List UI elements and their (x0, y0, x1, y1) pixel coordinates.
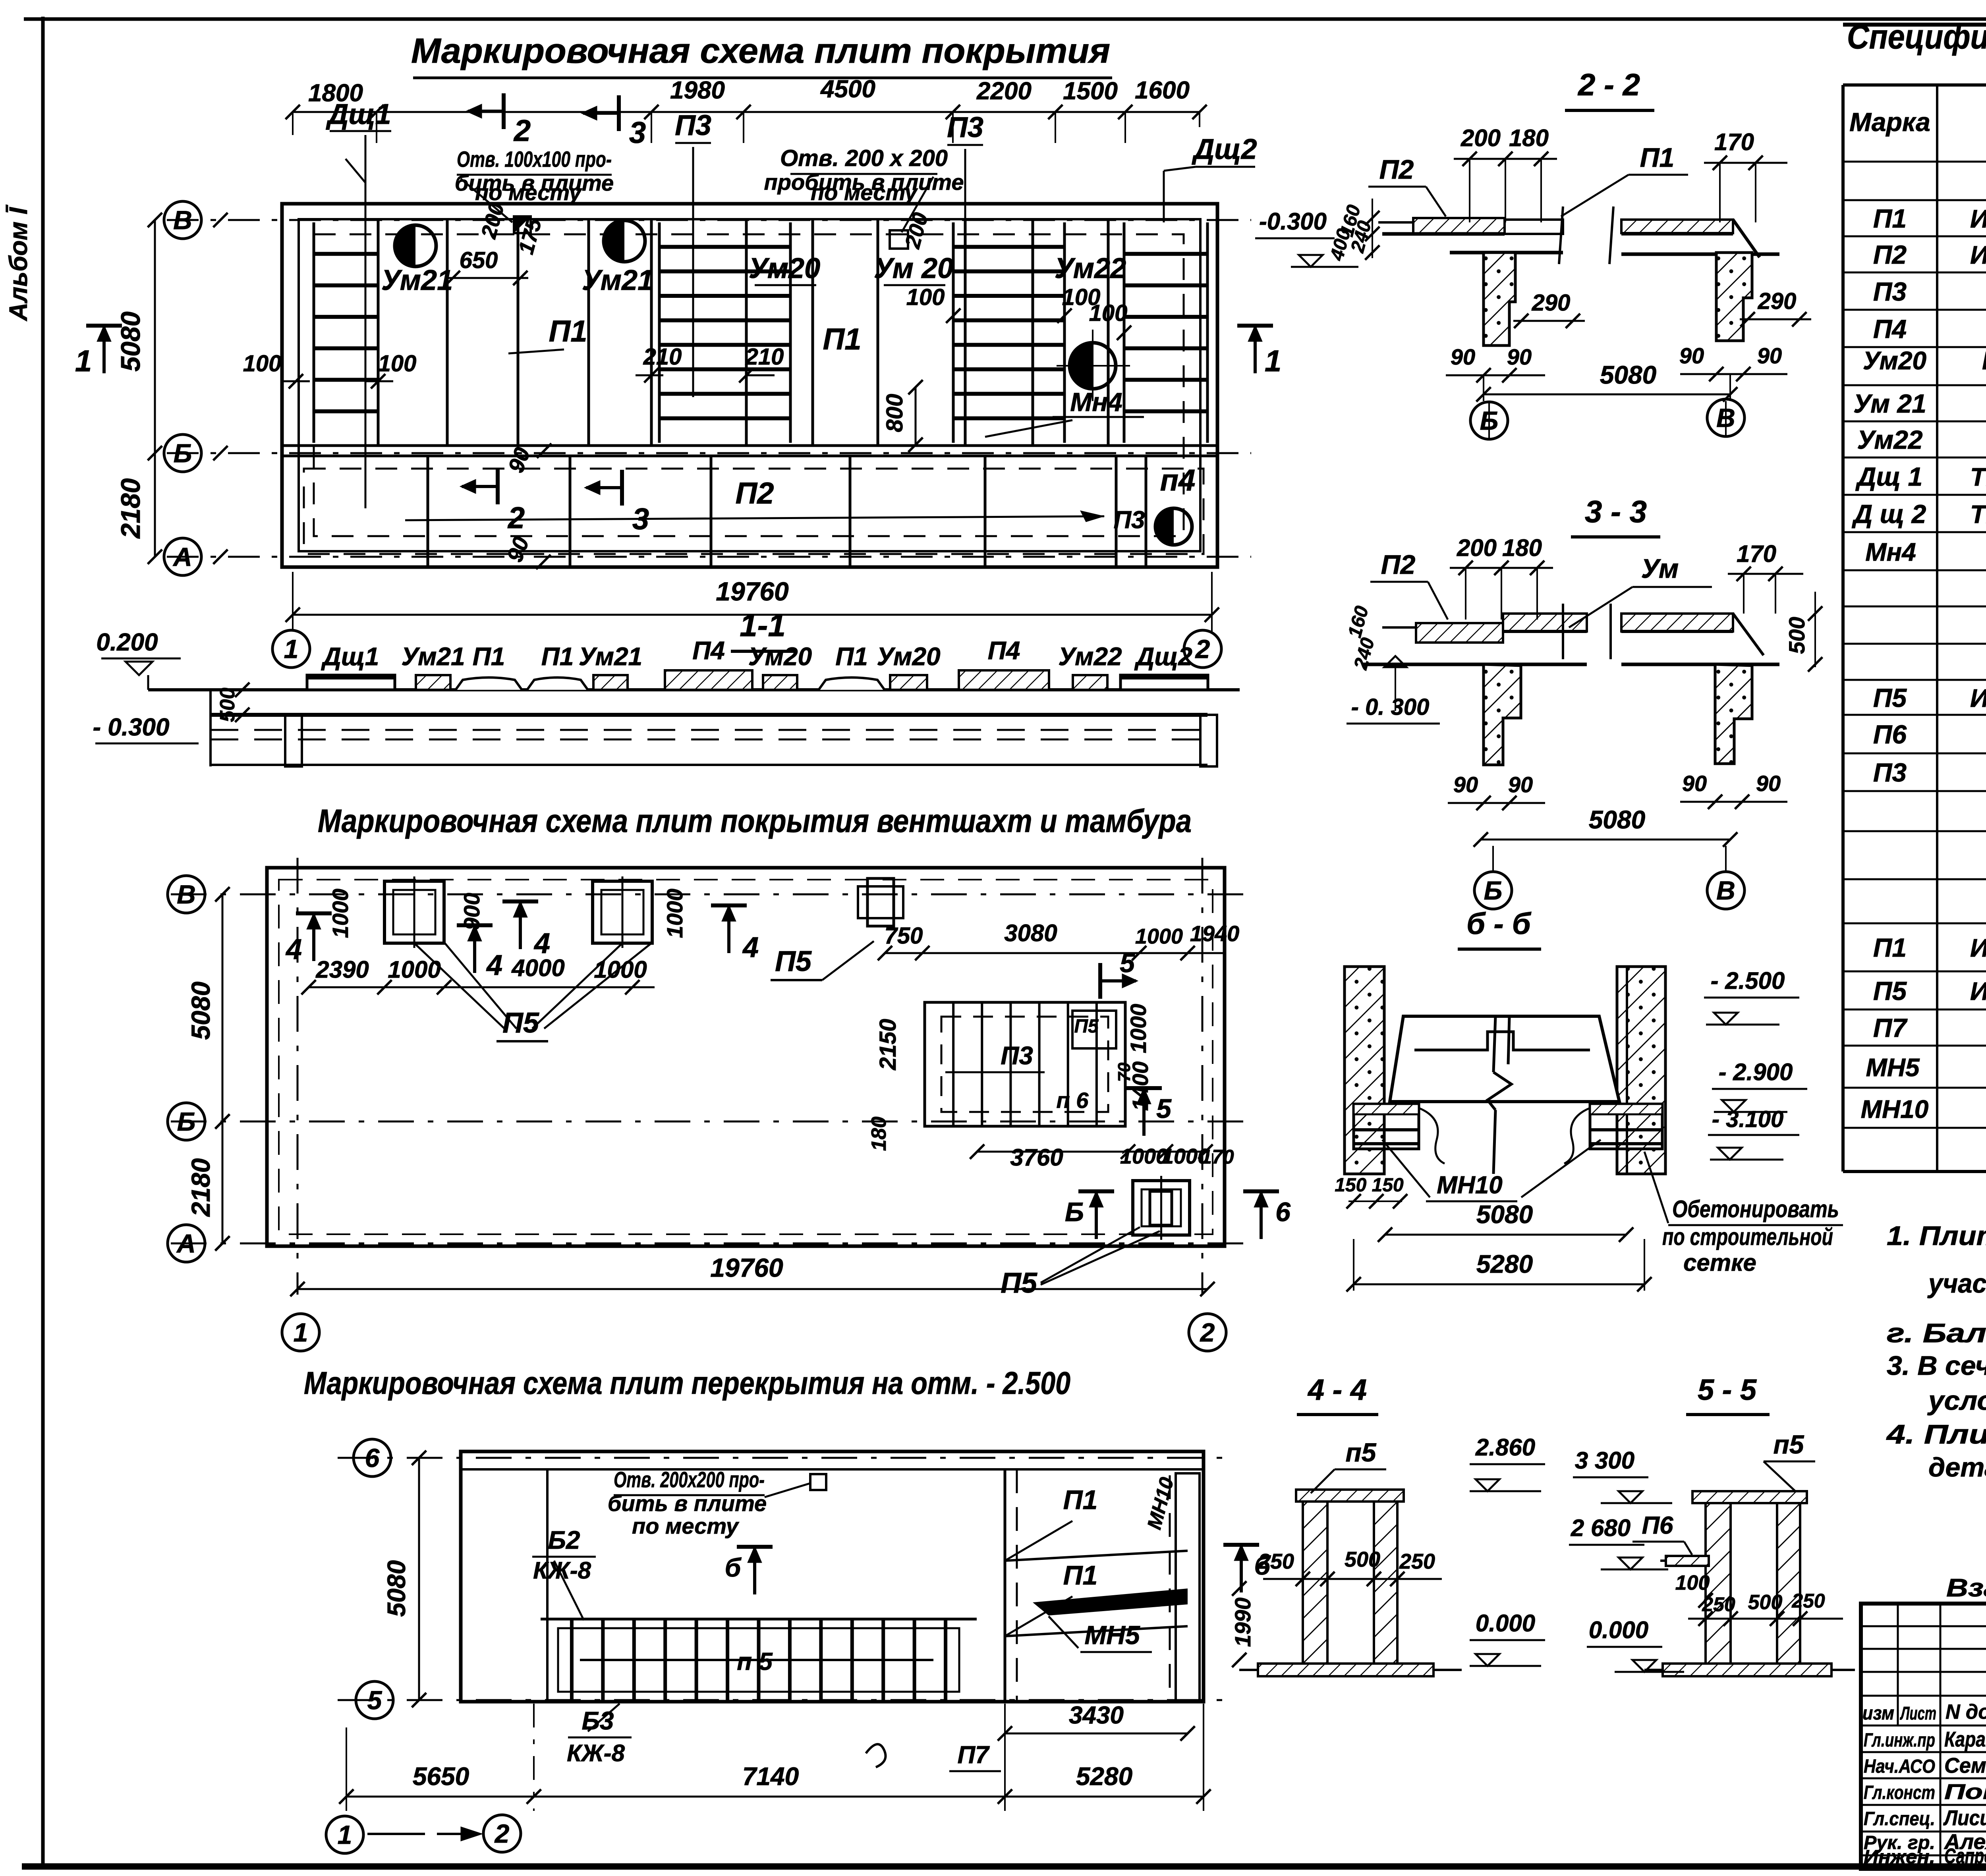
svg-text:ИС - 01- 04 Вып2: ИС - 01- 04 Вып2 (1970, 977, 1986, 1006)
section 4-4 body (1239, 1490, 1462, 1676)
slab П4 in section 1-1 (665, 636, 752, 690)
svg-text:Спецификация элементов к ма: Спецификация элементов к маркировочным с… (1847, 18, 1986, 56)
arrow between circles (367, 1827, 483, 1841)
vent plan axis B (171, 1121, 1247, 1123)
svg-text:1000: 1000 (388, 956, 440, 983)
vent plan outer wall (267, 868, 1225, 1246)
svg-text:Отв. 200х200 про-: Отв. 200х200 про- (614, 1467, 765, 1492)
section 2-2 top dims (1454, 125, 1787, 222)
title block outer (1861, 1604, 1986, 1869)
section 2-2 title (1565, 67, 1654, 110)
section 6-6 dim 5080 (1378, 1200, 1633, 1242)
elevation 0.200 (96, 629, 181, 675)
svg-text:800: 800 (882, 394, 908, 432)
svg-text:П5: П5 (1001, 1267, 1037, 1299)
svg-text:Отв. 100х100 про-: Отв. 100х100 про- (457, 147, 612, 172)
slab Ум21 in section 1-1 (579, 642, 642, 690)
svg-text:п 5: п 5 (737, 1648, 773, 1675)
svg-text:Взамен листа КЖ7 21.09.62. И: Взамен листа КЖ7 21.09.62. Инш. (1946, 1573, 1986, 1602)
svg-text:2.860: 2.860 (1475, 1434, 1535, 1461)
section 2-2 dim 5080 (1476, 361, 1737, 401)
section 2-2 right wall (1716, 253, 1752, 341)
svg-text:170: 170 (1737, 540, 1776, 567)
svg-text:5: 5 (1120, 948, 1135, 978)
svg-text:70: 70 (1115, 1062, 1134, 1082)
axis circle 2 bottom (483, 1815, 521, 1852)
section 6-6 right wall (1617, 967, 1665, 1174)
svg-text:2: 2 (1200, 1318, 1215, 1347)
svg-text:А: А (172, 542, 192, 571)
svg-text:П3: П3 (1873, 277, 1907, 306)
svg-text:2: 2 (1195, 634, 1210, 664)
svg-text:Ум 21: Ум 21 (1853, 389, 1926, 418)
svg-text:1: 1 (284, 634, 299, 664)
svg-text:П3: П3 (1001, 1041, 1033, 1070)
svg-text:-0.300: -0.300 (1259, 208, 1327, 235)
section 6-6 slab trapezoid (1390, 1016, 1619, 1174)
svg-text:4 - 4: 4 - 4 (1307, 1373, 1367, 1406)
slab П1 in section 1-1 (456, 642, 522, 690)
dim 100 right (1089, 300, 1132, 340)
elevation 0.000 sec4-4 (1470, 1610, 1545, 1666)
section flags 5 (1100, 948, 1172, 1136)
svg-text:500: 500 (1345, 1548, 1380, 1571)
svg-text:5080: 5080 (1476, 1200, 1533, 1229)
svg-text:г. Балки Б2 и БЗ см.: г. Балки Б2 и БЗ см. КЖ8 . (1887, 1318, 1986, 1348)
svg-text:3. В сеч. 4-4 и 5 - 5 жал: 3. В сеч. 4-4 и 5 - 5 жалюзийные решетки (1887, 1351, 1986, 1381)
svg-text:П2: П2 (1873, 240, 1907, 269)
dim 3430 (998, 1702, 1195, 1741)
slab Ум21 in section 1-1 (401, 642, 465, 690)
svg-text:Обетонировать: Обетонировать (1672, 1196, 1839, 1222)
svg-text:500: 500 (1748, 1591, 1783, 1614)
svg-text:Мн4: Мн4 (1865, 538, 1916, 566)
svg-text:250: 250 (1258, 1550, 1294, 1573)
svg-text:90: 90 (1508, 772, 1533, 797)
svg-text:2150: 2150 (875, 1019, 901, 1070)
vent shaft opening 3 small (858, 878, 903, 926)
svg-text:1600: 1600 (1135, 77, 1190, 104)
svg-text:Нач.АСО: Нач.АСО (1864, 1756, 1935, 1777)
dim 1990 rotated (1230, 1581, 1255, 1667)
replacement note (1946, 1573, 1986, 1604)
svg-text:200: 200 (1457, 535, 1497, 561)
svg-text:П1: П1 (835, 642, 868, 671)
label B2 KЖ-8 (532, 1526, 596, 1620)
svg-text:750: 750 (885, 923, 923, 949)
section 3-3 left small dims (1344, 604, 1379, 672)
svg-text:90: 90 (1756, 771, 1781, 796)
section 3-3 dims 90 90 (1448, 771, 1787, 810)
section 4-4 labels dims (1258, 1438, 1442, 1586)
svg-text:- 2.900: - 2.900 (1719, 1059, 1793, 1085)
svg-text:П3: П3 (1113, 506, 1145, 534)
svg-text:180: 180 (867, 1117, 891, 1151)
svg-text:Марка: Марка (1849, 107, 1930, 137)
svg-text:Отв. 200 х 200: Отв. 200 х 200 (780, 145, 948, 171)
svg-text:2180: 2180 (116, 478, 146, 539)
svg-text:Б: Б (1065, 1197, 1084, 1227)
svg-text:В: В (173, 205, 192, 235)
section 3-3 right wall (1715, 664, 1752, 764)
section mark 2 top (466, 93, 531, 148)
section 3-3 title (1571, 494, 1660, 537)
slab joints lower band (428, 456, 1146, 567)
section mark 3 top (581, 95, 646, 150)
svg-text:сетке: сетке (1683, 1249, 1756, 1276)
weld plate MN5 black wedge (1033, 1588, 1188, 1615)
svg-text:90: 90 (1679, 343, 1704, 368)
vent plan bottom dims (970, 1144, 1234, 1171)
svg-text:1: 1 (1265, 344, 1281, 378)
beam B2 B3 ribbed area (541, 1619, 977, 1702)
notes (1886, 1221, 1986, 1482)
svg-text:МН10: МН10 (1861, 1095, 1929, 1123)
svg-text:5280: 5280 (1476, 1250, 1533, 1278)
svg-text:100: 100 (1675, 1571, 1710, 1594)
label Um22 (1055, 253, 1126, 284)
svg-text:1000: 1000 (1126, 1004, 1151, 1054)
spec row P3b (1873, 758, 1986, 787)
svg-text:2 - 2: 2 - 2 (1577, 67, 1640, 102)
dim 90 upper (503, 444, 551, 476)
svg-text:Б: Б (1480, 406, 1499, 435)
label Mn4 (985, 387, 1144, 437)
axis circle V (164, 201, 228, 239)
section 6-6 dim 150 150 (1335, 1175, 1407, 1208)
section 3-3 axis circle B (1474, 846, 1512, 909)
svg-text:5: 5 (367, 1685, 383, 1715)
svg-text:250: 250 (1399, 1550, 1435, 1573)
axis circle A (164, 538, 228, 575)
section flags 6 bottom (1065, 1191, 1291, 1239)
svg-text:1940: 1940 (1190, 921, 1240, 946)
svg-text:П1: П1 (1640, 143, 1675, 173)
svg-text:1500: 1500 (1063, 77, 1118, 105)
floor plan axis 6 (338, 1439, 1231, 1476)
hole 200x200 (890, 230, 908, 249)
svg-text:П5: П5 (1873, 976, 1907, 1006)
svg-text:90: 90 (1757, 343, 1782, 368)
spec table grid (1843, 85, 1986, 1172)
vent shaft opening bottom right (1133, 1176, 1190, 1240)
svg-text:П7: П7 (957, 1741, 990, 1769)
section 4-4 title (1297, 1373, 1378, 1415)
svg-text:90: 90 (1451, 344, 1475, 369)
svg-text:100: 100 (1089, 300, 1128, 326)
svg-text:4500: 4500 (820, 75, 875, 103)
svg-text:б: б (725, 1553, 742, 1582)
svg-text:бить в плите: бить в плите (608, 1491, 767, 1516)
svg-text:П2: П2 (1379, 154, 1414, 185)
svg-text:500: 500 (1784, 617, 1809, 654)
spec row P2 (1873, 240, 1986, 269)
svg-text:1000: 1000 (662, 889, 687, 938)
svg-text:Гл.инж.пр: Гл.инж.пр (1864, 1730, 1935, 1751)
svg-text:по месту: по месту (475, 180, 583, 205)
svg-text:Д щ 2: Д щ 2 (1852, 499, 1926, 529)
section 6-6 dim 5280 (1347, 1239, 1652, 1291)
elevation -0.300 section 1-1 (93, 714, 199, 743)
svg-text:1: 1 (294, 1318, 308, 1347)
label Um20b (874, 253, 953, 285)
spec row P6 (1873, 720, 1986, 749)
svg-text:2180: 2180 (186, 1158, 215, 1217)
svg-text:участки покрытия без рас: участки покрытия без раствора (1927, 1268, 1986, 1299)
svg-text:В: В (1716, 876, 1735, 905)
svg-text:п5: п5 (1773, 1430, 1804, 1459)
axis circle 2 mid (1189, 1314, 1226, 1351)
svg-text:Мн4: Мн4 (1070, 387, 1122, 417)
svg-text:170: 170 (1201, 1146, 1234, 1168)
svg-text:б - б: б - б (1466, 907, 1532, 941)
label Um21 (381, 264, 453, 296)
section 6-6 support pads (1354, 1104, 1662, 1164)
svg-text:Ум21: Ум21 (579, 642, 642, 671)
vent axis circle A (168, 1225, 230, 1262)
svg-text:П1: П1 (1873, 933, 1907, 962)
svg-text:19760: 19760 (716, 577, 789, 606)
svg-text:2390: 2390 (315, 956, 369, 983)
svg-text:1000: 1000 (1135, 924, 1183, 948)
axis line V (167, 219, 1251, 221)
note hole 100x100 (455, 147, 614, 222)
floor plan P1 slabs (1005, 1469, 1200, 1702)
svg-text:3 - 3: 3 - 3 (1585, 494, 1647, 529)
vent shaft opening 1 (384, 876, 444, 948)
spec row Mn4 (1865, 532, 1986, 572)
section mark 1 left (75, 325, 122, 378)
svg-text:1-1: 1-1 (740, 608, 786, 643)
svg-text:П1: П1 (823, 322, 862, 356)
label P4 lower right (1160, 463, 1196, 497)
svg-text:П6: П6 (1873, 720, 1907, 749)
svg-text:Маркировочная схема плит п: Маркировочная схема плит перекрытия на о… (304, 1365, 1070, 1401)
slab Ум20 in section 1-1 (748, 642, 812, 690)
title block left grid (1861, 1604, 1986, 1869)
svg-text:Ум20: Ум20 (1863, 346, 1926, 375)
svg-text:Дщ2: Дщ2 (1191, 133, 1257, 165)
section flags 4 (285, 901, 759, 981)
svg-text:ТП: ТП (1970, 463, 1986, 491)
svg-text:250: 250 (1702, 1593, 1735, 1615)
svg-text:Ум20: Ум20 (748, 642, 812, 671)
svg-text:170: 170 (1714, 129, 1754, 155)
section 2-2 axis circle V (1707, 399, 1745, 437)
vent plan rotated dims (328, 889, 1153, 1151)
svg-text:19760: 19760 (710, 1253, 783, 1282)
svg-text:Каракозов: Каракозов (1944, 1727, 1986, 1751)
vent axis 1 line (297, 858, 299, 1295)
svg-text:5080: 5080 (1600, 361, 1656, 389)
svg-text:КЖ: КЖ (1982, 346, 1986, 375)
label P3 lower right (1113, 506, 1145, 534)
svg-text:Маркировочная схема плит: Маркировочная схема плит покрытия (411, 31, 1110, 70)
svg-text:П1: П1 (1063, 1560, 1098, 1590)
roof slab plan: outer walls (282, 204, 1217, 567)
formwork dashed outline upper (314, 234, 1184, 536)
svg-text:3760: 3760 (1010, 1144, 1063, 1171)
svg-text:П6: П6 (1642, 1512, 1673, 1539)
section 3-3 left wall (1484, 664, 1521, 765)
svg-text:3430: 3430 (1069, 1702, 1124, 1729)
svg-text:Семенов: Семенов (1944, 1754, 1986, 1778)
section 3-3 dim 500 (1784, 592, 1822, 672)
note hole 200x200 (764, 145, 964, 232)
svg-text:2200: 2200 (976, 77, 1032, 105)
svg-text:Гл.спец.: Гл.спец. (1864, 1808, 1935, 1830)
svg-text:2 680: 2 680 (1571, 1515, 1631, 1541)
svg-text:5: 5 (1156, 1094, 1172, 1124)
label Dsh1 with leader (325, 98, 391, 508)
svg-text:0.000: 0.000 (1476, 1610, 1535, 1637)
slab Дщ2 in section 1-1 (1121, 642, 1208, 690)
spec table headers (1849, 98, 1986, 150)
svg-text:Б: Б (174, 438, 192, 468)
svg-text:Дщ 1: Дщ 1 (1855, 462, 1922, 491)
vent axis circle B (168, 1103, 230, 1140)
hole Um22 (1057, 330, 1130, 401)
svg-text:П3: П3 (675, 110, 711, 141)
section 2-2 labels (1368, 143, 1688, 216)
svg-text:условно не показаны: условно не показаны (1927, 1386, 1986, 1416)
dim 200b (900, 210, 933, 251)
elevation -0.300 sec2-2 (0, 0, 0, 0)
spec row P4 (1873, 314, 1986, 344)
svg-text:5280: 5280 (1076, 1762, 1132, 1791)
band separator line (282, 446, 1217, 456)
section 2-2 left small dims (1326, 199, 1379, 263)
svg-text:П4: П4 (988, 636, 1020, 665)
slab П1 in section 1-1 (819, 642, 885, 690)
svg-text:ИИ 24-9: ИИ 24-9 (1970, 205, 1986, 233)
axis circle 1 bottom (326, 1816, 363, 1853)
slab Дщ1 in section 1-1 (307, 642, 395, 690)
section 5-5 labels dims (1632, 1430, 1843, 1626)
svg-text:П5: П5 (502, 1007, 539, 1039)
formwork dashed outline lower (304, 469, 1204, 554)
axis circle 1 mid (282, 1314, 319, 1351)
hole Um21 left (395, 225, 436, 266)
squiggle mark on dim (866, 1744, 886, 1767)
ribbed slabs P3 mid (659, 222, 790, 443)
svg-text:Ум21: Ум21 (401, 642, 465, 671)
svg-text:П7: П7 (1873, 1013, 1908, 1042)
svg-text:5080: 5080 (186, 981, 215, 1040)
svg-text:0.200: 0.200 (96, 629, 158, 656)
svg-text:Ис - 01 - 04 Вып 2.: Ис - 01 - 04 Вып 2. (1970, 241, 1986, 269)
dim 100 mid pair (906, 284, 1101, 323)
svg-text:Ум 20: Ум 20 (874, 253, 953, 284)
svg-text:Ум20: Ум20 (877, 642, 940, 671)
spec row P3 (1873, 277, 1986, 306)
svg-text:1: 1 (338, 1820, 352, 1849)
svg-text:П5: П5 (1074, 1016, 1099, 1037)
svg-text:П1: П1 (1873, 204, 1907, 233)
svg-text:Лисичкин: Лисичкин (1943, 1806, 1986, 1830)
spec row P5 floor (1873, 976, 1986, 1006)
svg-text:Ум20: Ум20 (749, 253, 820, 284)
elevation 3 300 (1573, 1447, 1672, 1503)
svg-text:200: 200 (1461, 125, 1501, 151)
title block left texts (1862, 1700, 1986, 1869)
svg-text:П2: П2 (736, 477, 774, 510)
spec row P5 (1873, 683, 1986, 712)
section 6-6 title (1458, 907, 1541, 949)
svg-text:7140: 7140 (742, 1762, 799, 1791)
svg-text:5080: 5080 (116, 311, 146, 371)
svg-text:90: 90 (1507, 344, 1532, 369)
dim 650 (445, 247, 528, 285)
svg-text:Сапрошина: Сапрошина (1944, 1844, 1986, 1868)
svg-text:Маркировочная схема плит по: Маркировочная схема плит покрытия вентша… (318, 803, 1192, 839)
svg-text:100: 100 (243, 351, 282, 376)
label P3 top right leader (947, 112, 983, 417)
spec row Um20 (1863, 339, 1986, 385)
section 2-2 left wall (1484, 253, 1515, 345)
floor plan outer wall (461, 1451, 1204, 1702)
ribbed slabs near Dsh2 (1124, 222, 1207, 443)
label Dsh2 with leader (1164, 133, 1257, 222)
svg-text:Гл.конст: Гл.конст (1864, 1782, 1935, 1803)
vent axis circle V (168, 876, 230, 913)
label MN10 rotated (1143, 1475, 1178, 1532)
svg-text:100: 100 (906, 284, 945, 310)
dim 210 pair (636, 344, 784, 382)
elevation 2.860 (1470, 1434, 1545, 1491)
elevation 0.000 sec5-5 (1587, 1617, 1684, 1672)
svg-text:210: 210 (643, 344, 682, 370)
svg-text:4: 4 (285, 934, 302, 965)
svg-text:- 0. 300: - 0. 300 (1351, 694, 1430, 720)
spec row P1 (1873, 204, 1986, 233)
svg-text:Ум22: Ум22 (1857, 425, 1923, 454)
svg-text:П5: П5 (1873, 683, 1907, 712)
spec row Um21 (1853, 389, 1986, 418)
svg-text:П3: П3 (1873, 758, 1907, 787)
svg-text:В: В (1716, 403, 1735, 432)
svg-text:650: 650 (460, 247, 498, 273)
svg-text:изм: изм (1862, 1703, 1894, 1724)
svg-text:1. Плиты П3 укладываю: 1. Плиты П3 укладываются на монолитные (1887, 1221, 1986, 1251)
section 6-6 left wall (1345, 967, 1384, 1174)
svg-text:Дщ2: Дщ2 (1134, 642, 1192, 671)
vent plan axis A (171, 1243, 1247, 1245)
svg-text:П4: П4 (692, 636, 725, 665)
svg-text:ИС - 01- 04 Вып2: ИС - 01- 04 Вып2 (1970, 684, 1986, 712)
svg-text:Б3: Б3 (582, 1706, 614, 1735)
vent plan top dims (301, 920, 1239, 994)
svg-text:- 0.300: - 0.300 (93, 714, 169, 741)
dim 90 lower (502, 533, 551, 569)
svg-text:Инжен.: Инжен. (1864, 1847, 1935, 1868)
label P3 top mid leader (675, 110, 711, 397)
section 3-3 top dims (1450, 535, 1803, 620)
svg-text:210: 210 (745, 344, 784, 370)
svg-text:ИИ- 24.- 9: ИИ- 24.- 9 (1970, 934, 1986, 962)
label MN5 (1049, 1616, 1152, 1652)
top dimension chain (286, 75, 1207, 143)
svg-text:по месту: по месту (632, 1513, 740, 1538)
svg-text:4: 4 (742, 932, 759, 963)
spec row Um22 (1857, 425, 1986, 454)
svg-text:Б: Б (177, 1107, 196, 1136)
svg-text:Ум22: Ум22 (1055, 253, 1126, 284)
svg-text:1000: 1000 (594, 956, 647, 983)
svg-text:П1: П1 (1063, 1485, 1098, 1515)
svg-text:0.000: 0.000 (1589, 1617, 1648, 1643)
section 6-6 MN10 label (1382, 1140, 1601, 1201)
